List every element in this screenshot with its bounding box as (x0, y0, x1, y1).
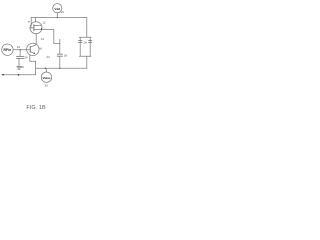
svg-text:10: 10 (60, 10, 64, 14)
capacitor C2 (57, 54, 62, 56)
arrow on Q1 right lead (41, 28, 42, 30)
wire C2 to bottom rail (59, 56, 61, 68)
svg-text:24: 24 (46, 55, 50, 59)
wire tank to bottom rail (86, 56, 88, 68)
svg-text:1H: 1H (83, 40, 87, 44)
svg-text:26: 26 (64, 53, 68, 57)
wire Q2 emitter down jog (30, 55, 36, 74)
arrow mark near rail corner (28, 21, 30, 23)
wire tank merge bar (79, 55, 91, 57)
node C2 rail (59, 67, 61, 69)
arrow on Q2 emitter (33, 52, 35, 54)
wire rail left drop to Q1 base loop (30, 18, 32, 27)
svg-text:RFin: RFin (4, 48, 12, 52)
supply circle VDD (53, 4, 62, 13)
svg-text:24: 24 (24, 56, 28, 60)
wire bottom left line (2, 74, 35, 76)
svg-text:22: 22 (17, 45, 21, 49)
wire rail right drop (86, 18, 88, 38)
capacitor C1 (17, 56, 24, 58)
wire input cap branch (19, 50, 21, 56)
input source circle (2, 44, 13, 55)
transistor Q1 (30, 22, 42, 34)
svg-text:M: M (39, 47, 42, 51)
wire VDD stub (56, 13, 58, 18)
arrow into Q1 (30, 26, 31, 28)
wire top rail (31, 17, 87, 19)
capacitor C3 branch (89, 37, 92, 56)
node VB tap (45, 67, 47, 69)
wire Q1 right lead to C2 branch (42, 30, 60, 44)
bias circle VB (41, 72, 51, 82)
node input junction (19, 49, 21, 51)
svg-text:Vbias: Vbias (42, 76, 50, 80)
svg-text:14: 14 (41, 37, 45, 41)
wire VB tap (45, 68, 47, 72)
svg-text:FIG. 1B: FIG. 1B (26, 105, 46, 111)
wire tank split bar (79, 36, 91, 38)
node bottom line (18, 74, 20, 76)
inductor L1 branch (79, 37, 82, 56)
ground (17, 66, 21, 69)
svg-text:20: 20 (45, 83, 49, 87)
wire cap to ground (18, 59, 20, 67)
wire Q1 collector drop (35, 18, 37, 22)
svg-text:12: 12 (42, 20, 46, 24)
transistor Q2 (27, 43, 39, 55)
wire Q1 emitter to Q2 (35, 34, 37, 44)
arrow left end (1, 74, 4, 76)
svg-text:16: 16 (21, 65, 25, 69)
node rail junction (57, 17, 59, 19)
wire bottom rail (36, 67, 87, 69)
wire input to Q2 base (13, 49, 27, 51)
